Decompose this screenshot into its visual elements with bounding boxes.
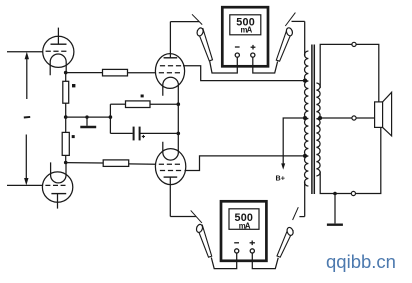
wire top break left segment — [170, 21, 199, 23]
wire terminal T3 to speaker bottom — [356, 127, 381, 193]
triode V2 bottom-left — [42, 162, 72, 208]
wire M1 negative lead — [210, 57, 238, 73]
secondary center tap dot — [318, 116, 322, 120]
wire M2 negative lead — [211, 253, 236, 269]
wire terminal to speaker top — [356, 44, 379, 102]
wire RC bottom branch left — [110, 132, 132, 134]
wire node A down to R2 — [65, 73, 67, 82]
node A junction dot — [64, 71, 68, 75]
pentode V3 top output tube — [155, 54, 184, 96]
wire secondary bottom lead — [320, 172, 351, 194]
wire R3 to node C — [65, 155, 67, 162]
ground 2 junction dot — [333, 192, 337, 196]
transformer T1 secondary winding — [316, 83, 320, 176]
ground 2 — [327, 194, 343, 225]
tap 1 ultralinear dot — [303, 79, 307, 83]
wire R4 to V4 grid — [129, 163, 156, 165]
wire RC top branch left — [110, 103, 125, 105]
pentode V4 bottom output tube — [155, 142, 185, 185]
node D junction dot — [177, 102, 181, 106]
input signal arrow bottom — [7, 135, 43, 186]
resistor R3 — [62, 132, 69, 155]
probe M2 left — [191, 210, 212, 257]
ammeter M1 — [222, 7, 268, 66]
resistor R4 — [103, 160, 129, 167]
wire V4 plate down — [169, 177, 171, 216]
transformer T1 core — [312, 45, 314, 195]
probe M2 right — [277, 207, 298, 257]
wire to transformer primary bottom — [304, 182, 306, 217]
node RC-left junction dot — [109, 115, 113, 119]
watermark qqibb.cn — [326, 251, 396, 273]
wire bottom break right segment — [299, 216, 304, 218]
resistor R5 — [126, 101, 151, 108]
label square mark 2 — [72, 135, 75, 138]
wire terminal T2 to speaker — [356, 117, 375, 119]
wire R2 to node B — [65, 103, 67, 117]
wire RC left vertical — [109, 104, 111, 133]
label square mark 3 — [141, 95, 144, 98]
svg-text:mA: mA — [239, 221, 251, 230]
resistor R2 — [63, 81, 69, 103]
wire C1 to node E — [141, 132, 179, 134]
wire V3 screen to tap 1 — [183, 66, 305, 81]
wire V4 screen to tap 3 — [185, 156, 306, 171]
wire bottom break left segment — [170, 216, 196, 218]
speaker LS1 — [375, 92, 392, 136]
terminal T2 middle — [352, 116, 356, 120]
ammeter M2 — [221, 201, 266, 260]
transformer T1 primary winding — [305, 51, 309, 186]
wire M2 positive lead — [252, 253, 278, 269]
wire secondary top lead — [320, 44, 352, 88]
node B junction dot — [64, 115, 68, 119]
terminal T3 bottom — [351, 191, 355, 195]
terminal T1 top — [352, 42, 356, 46]
probe M1 left — [192, 14, 213, 61]
wire M1 positive lead — [253, 57, 278, 73]
label square mark 1 — [72, 84, 75, 87]
resistor R1 — [103, 69, 128, 76]
input signal arrow top — [7, 52, 43, 99]
wire node B down to R3 — [65, 117, 67, 132]
wire node C to R4 — [66, 162, 104, 164]
wire to transformer primary top — [304, 21, 306, 56]
wire node A to R1 — [66, 72, 103, 74]
triode V1 top-left — [43, 28, 74, 76]
node E junction dot — [177, 132, 181, 136]
input signal dash mark — [24, 116, 30, 119]
svg-text:mA: mA — [241, 26, 253, 35]
capacitor C1 — [134, 127, 145, 141]
wire top break right segment — [292, 20, 305, 22]
node C junction dot — [64, 161, 68, 165]
wire node B to RC network — [66, 116, 111, 118]
tap 3 ultralinear dot — [303, 154, 307, 158]
probe M1 right — [276, 13, 295, 62]
wire R1 to V3 grid — [128, 72, 156, 74]
wire secondary center tap — [320, 117, 352, 119]
wire V3 cathode down — [177, 85, 179, 152]
wire R5 to node D — [150, 103, 178, 105]
tap 2 primary center tap dot — [303, 116, 307, 120]
ground 1 — [80, 115, 96, 127]
wire V3 plate up — [169, 22, 171, 58]
wire B+ feed with arrow — [281, 118, 305, 170]
svg-text:B+: B+ — [276, 173, 285, 182]
